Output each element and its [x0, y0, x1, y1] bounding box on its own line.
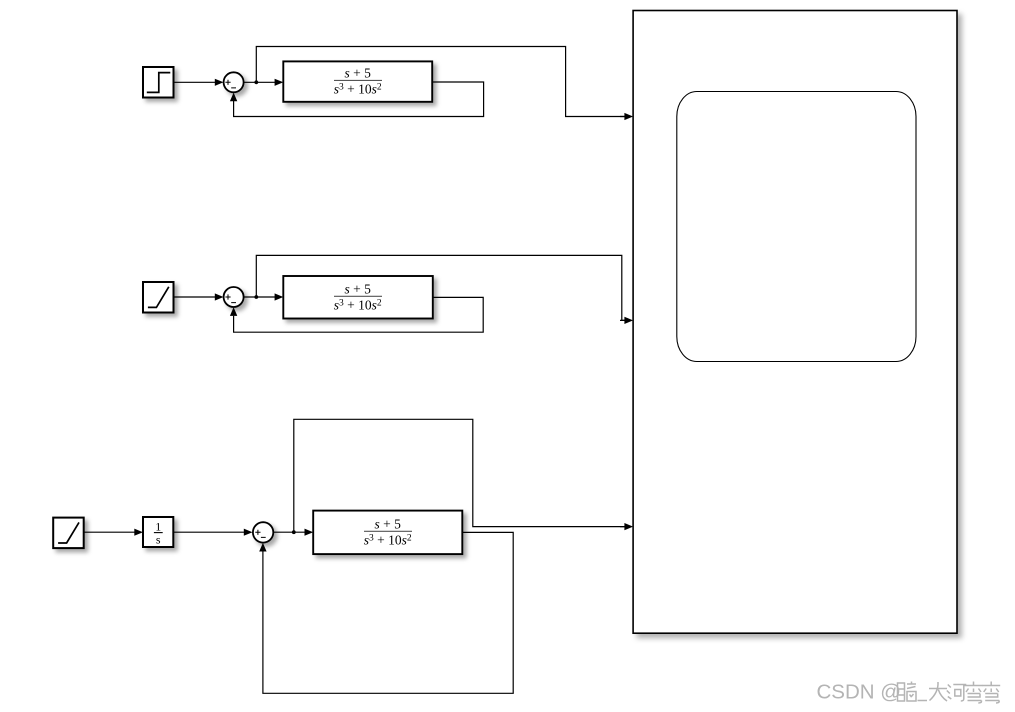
svg-text:s + 5: s + 5	[345, 65, 372, 80]
svg-text:CSDN @: CSDN @	[817, 681, 902, 704]
svg-text:s + 5: s + 5	[345, 281, 372, 296]
svg-text:1: 1	[155, 520, 161, 534]
svg-text:s + 5: s + 5	[375, 516, 402, 531]
svg-text:s: s	[156, 533, 161, 547]
